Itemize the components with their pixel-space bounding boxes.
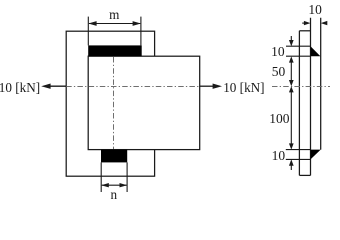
- side view: middle plate left edge: [298, 31, 300, 176]
- dim 50 line with arrows: [290, 58, 292, 85]
- dimension n arrowhead right: [120, 183, 128, 187]
- label n: [111, 188, 118, 201]
- dimension m line: [89, 23, 140, 25]
- label 10 (plate thickness): [308, 3, 322, 16]
- label 10 (top weld): [271, 45, 285, 58]
- dimension m extension line right: [140, 17, 142, 46]
- dim 10 (plate thickness) right arrow pointing left: [325, 22, 327, 24]
- dim 10 (top weld) upper arrow pointing down: [290, 36, 292, 41]
- dimension n arrowhead left: [101, 183, 109, 187]
- dimension n extension line left: [100, 162, 102, 192]
- extension line bottom weld lower: [286, 158, 311, 160]
- label m: [109, 8, 119, 21]
- extension line bottom weld upper: [286, 149, 311, 151]
- dim 100 line with arrows: [290, 88, 292, 148]
- label 10 [kN] right: [223, 81, 264, 94]
- outer plate (back plate, front view): [66, 31, 154, 176]
- dimension n extension line right: [126, 162, 128, 192]
- label 50: [272, 65, 286, 78]
- dim 10 (bottom weld) lower arrow pointing up: [290, 164, 292, 170]
- vertical centerline (front view): [113, 57, 115, 149]
- force arrow left (pointing left): [50, 85, 67, 87]
- side view weld triangle bottom: [311, 150, 321, 160]
- side view: middle plate bottom edge: [299, 174, 310, 176]
- dim 10 (plate thickness) left arrow pointing right: [302, 22, 305, 24]
- dimension m arrowhead right: [133, 21, 141, 26]
- dimension m extension line left: [87, 17, 89, 46]
- label 10 (bottom weld): [272, 149, 286, 162]
- weld seam bottom (front view, filled): [101, 150, 127, 163]
- label 10 [kN] left: [0, 81, 40, 94]
- side view weld triangle top: [311, 46, 321, 56]
- label 100: [269, 112, 289, 125]
- force arrow right (pointing right): [200, 85, 214, 87]
- weld seam top (front view, filled): [88, 45, 142, 56]
- side view centerline: [272, 86, 330, 88]
- middle plate (front plate, front view): [88, 56, 200, 149]
- horizontal centerline (front view): [66, 86, 200, 88]
- dimension m arrowhead left: [88, 21, 96, 26]
- extension line top weld upper: [286, 45, 311, 47]
- extension line top weld lower: [286, 55, 311, 57]
- side view: middle plate top edge: [299, 30, 310, 32]
- side view: shared contact line / middle plate right edge: [310, 18, 312, 176]
- side view: outer plate right edge: [320, 18, 322, 150]
- dimension n line: [102, 184, 127, 186]
